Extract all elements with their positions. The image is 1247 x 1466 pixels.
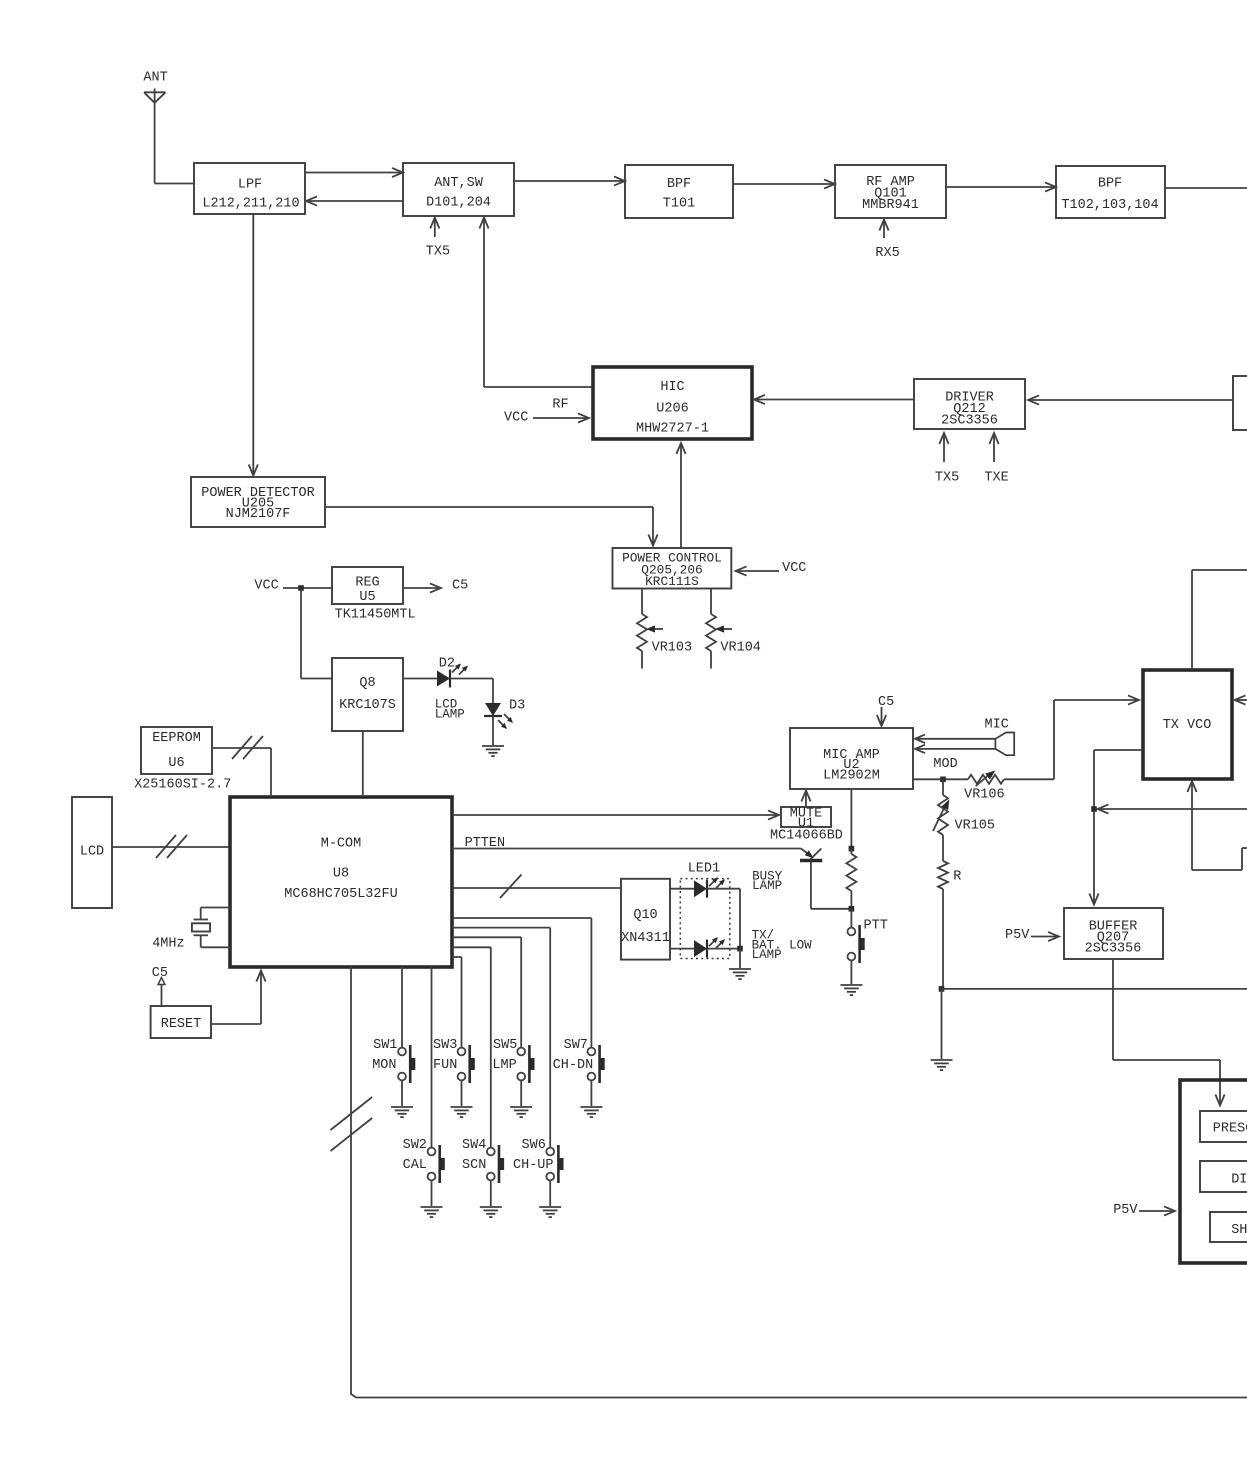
svg-text:RX5: RX5 bbox=[875, 246, 899, 261]
potentiometer VR103 bbox=[637, 589, 692, 669]
block POWER DETECTOR U205 NJM2107F bbox=[191, 477, 325, 527]
net VCC to REG bbox=[254, 579, 332, 594]
wire M-COM to MUTE bbox=[452, 810, 779, 819]
wire VR106 to TX VCO bbox=[1004, 695, 1139, 779]
svg-text:VR104: VR104 bbox=[720, 641, 761, 656]
svg-text:VR103: VR103 bbox=[652, 641, 693, 656]
svg-text:T101: T101 bbox=[663, 197, 695, 212]
svg-text:LM2902M: LM2902M bbox=[823, 769, 880, 784]
bus M-COM long line to bottom bbox=[351, 967, 1247, 1398]
wire MIC AMP to PTT node bbox=[850, 789, 852, 849]
block BPF T101 bbox=[625, 165, 733, 218]
svg-text:MIC: MIC bbox=[985, 718, 1009, 733]
svg-text:FUN: FUN bbox=[433, 1058, 457, 1073]
wire HIC to ANT,SW bbox=[479, 218, 593, 388]
block TX VCO (bold) bbox=[1143, 670, 1232, 779]
label D3 bbox=[509, 699, 525, 714]
svg-text:M-COM: M-COM bbox=[321, 837, 362, 852]
svg-text:SHI: SHI bbox=[1231, 1223, 1247, 1238]
wire DRIVER to HIC bbox=[754, 395, 914, 404]
svg-text:SW1: SW1 bbox=[373, 1038, 397, 1053]
svg-text:C5: C5 bbox=[152, 966, 168, 981]
svg-text:LAMP: LAMP bbox=[752, 948, 782, 962]
svg-text:TXE: TXE bbox=[984, 471, 1008, 486]
wire RF AMP to BPF T102 bbox=[946, 182, 1056, 191]
block POWER CONTROL Q205,206 KRC111S bbox=[613, 548, 732, 589]
svg-text:SW6: SW6 bbox=[522, 1138, 546, 1153]
block Q8 KRC107S bbox=[332, 658, 403, 731]
wire BPF to RF AMP bbox=[733, 179, 835, 188]
transistor Q9 (PTT switch) bbox=[800, 849, 851, 909]
wire node to ground bbox=[941, 989, 943, 1059]
net P5V arrow into BUFFER bbox=[1005, 928, 1059, 943]
svg-text:T102,103,104: T102,103,104 bbox=[1061, 198, 1158, 213]
wire Q10 to tx led bbox=[670, 948, 694, 950]
svg-text:D2: D2 bbox=[439, 657, 455, 672]
potentiometer VR104 bbox=[706, 589, 761, 669]
led D2 bbox=[437, 664, 468, 688]
led D3 bbox=[484, 703, 513, 729]
wire VR105 to R bbox=[942, 835, 944, 861]
svg-text:MMBR941: MMBR941 bbox=[862, 198, 919, 213]
wire M-COM to SW4 bbox=[452, 947, 491, 1147]
svg-text:SW2: SW2 bbox=[403, 1138, 427, 1153]
svg-text:VCC: VCC bbox=[254, 579, 278, 594]
svg-text:CH-DN: CH-DN bbox=[553, 1058, 594, 1073]
svg-text:VCC: VCC bbox=[782, 561, 806, 576]
svg-text:LAMP: LAMP bbox=[752, 879, 782, 893]
svg-text:KRC107S: KRC107S bbox=[339, 698, 396, 713]
svg-text:U206: U206 bbox=[656, 402, 688, 417]
block MIC AMP U2 LM2902M bbox=[790, 728, 913, 789]
label D2 bbox=[439, 657, 455, 672]
svg-text:CAL: CAL bbox=[403, 1158, 427, 1173]
svg-text:L212,211,210: L212,211,210 bbox=[202, 197, 299, 212]
svg-text:ANT: ANT bbox=[143, 71, 167, 86]
bus EEPROM to M-COM bbox=[212, 748, 271, 795]
block RF AMP Q101 MMBR941 bbox=[835, 165, 946, 218]
svg-text:EEPROM: EEPROM bbox=[152, 731, 201, 746]
block PLL (bold, clipped) bbox=[1180, 1080, 1247, 1263]
ground under PTT bbox=[840, 985, 862, 995]
label TX/ BAT. LOW LAMP bbox=[752, 929, 813, 963]
wire RESET to M-COM bbox=[211, 971, 266, 1025]
block LCD bbox=[72, 797, 112, 908]
switch SW6 CH-UP bbox=[513, 1138, 564, 1217]
svg-text:X25160SI-2.7: X25160SI-2.7 bbox=[134, 778, 231, 793]
block REG U5 bbox=[332, 567, 403, 605]
block MUTE U1 bbox=[781, 807, 831, 832]
node ANT label bbox=[143, 71, 167, 86]
switch SW5 LMP bbox=[492, 1038, 534, 1117]
net TX5 arrow into DRIVER bbox=[935, 433, 959, 486]
svg-text:MC14066BD: MC14066BD bbox=[770, 829, 843, 844]
value label X25160SI-2.7 bbox=[134, 778, 231, 793]
svg-text:XN4311: XN4311 bbox=[621, 931, 670, 946]
svg-text:BPF: BPF bbox=[667, 177, 691, 192]
wire M-COM to SW3 bbox=[452, 957, 462, 1048]
svg-text:4MHz: 4MHz bbox=[152, 937, 184, 952]
svg-text:VR106: VR106 bbox=[964, 788, 1005, 803]
wire BUFFER to prescaler bbox=[1113, 959, 1225, 1106]
svg-text:VR105: VR105 bbox=[955, 819, 996, 834]
block M-COM U8 MC68HC705L32FU (bold) bbox=[230, 797, 452, 967]
junction MOD node bbox=[940, 777, 946, 783]
led LED1a (busy) bbox=[694, 877, 725, 898]
wire M-COM to SW7 bbox=[452, 918, 591, 1048]
junction ground-line node bbox=[939, 986, 945, 992]
junction PTT node upper bbox=[849, 846, 855, 852]
net RF label bbox=[552, 398, 568, 413]
net TX5 arrow into ANT,SW bbox=[426, 218, 450, 260]
block PRESCALER (clipped) bbox=[1200, 1111, 1247, 1142]
resistor R bbox=[938, 861, 961, 889]
svg-text:TX VCO: TX VCO bbox=[1163, 718, 1212, 733]
svg-text:U8: U8 bbox=[333, 867, 349, 882]
svg-text:SW3: SW3 bbox=[433, 1038, 457, 1053]
net RX5 arrow into RF AMP bbox=[875, 220, 899, 262]
svg-text:P5V: P5V bbox=[1005, 928, 1030, 943]
switch SW1 MON bbox=[372, 1038, 415, 1117]
svg-text:CH-UP: CH-UP bbox=[513, 1158, 554, 1173]
wire PTT to ground bbox=[850, 960, 852, 984]
antenna ANT symbol bbox=[144, 89, 166, 184]
svg-text:2SC3356: 2SC3356 bbox=[941, 414, 998, 429]
net MOD label bbox=[933, 757, 957, 772]
wire POWER CONTROL to HIC bbox=[676, 443, 685, 547]
wire right block to DRIVER bbox=[1028, 395, 1233, 404]
wire LPF to ANT,SW (TX path) bbox=[305, 168, 403, 177]
junction VCC node bbox=[298, 585, 304, 591]
svg-text:TX5: TX5 bbox=[426, 245, 450, 260]
switch SW7 CH-DN bbox=[553, 1038, 605, 1117]
bus LCD to M-COM bbox=[112, 846, 230, 848]
net VCC arrow into HIC bbox=[504, 411, 589, 426]
block DIVIDER (clipped) bbox=[1200, 1161, 1247, 1192]
microphone MIC symbol bbox=[995, 733, 1014, 756]
block DRIVER Q212 2SC3356 bbox=[914, 379, 1025, 429]
svg-text:SW5: SW5 bbox=[493, 1038, 517, 1053]
wire tx led to node bbox=[707, 948, 740, 950]
value label MC14066BD bbox=[770, 829, 843, 844]
svg-text:LMP: LMP bbox=[492, 1058, 516, 1073]
block BUFFER Q207 2SC3356 bbox=[1064, 908, 1163, 959]
wire TX VCO bottom feedback bbox=[1187, 781, 1247, 870]
block EEPROM U6 bbox=[141, 727, 212, 774]
svg-text:BPF: BPF bbox=[1098, 177, 1122, 192]
wire busy led to corner bbox=[707, 889, 740, 949]
ground under D3 bbox=[482, 746, 504, 756]
label MIC bbox=[985, 718, 1009, 733]
wire Q8 to LED D2 bbox=[403, 678, 437, 680]
net VCC arrow into POWER CONTROL bbox=[736, 561, 807, 576]
potentiometer VR105 bbox=[933, 779, 995, 835]
block BPF T102,103,104 bbox=[1056, 166, 1165, 218]
svg-text:SCN: SCN bbox=[462, 1158, 486, 1173]
svg-text:C5: C5 bbox=[878, 695, 894, 710]
svg-text:PTT: PTT bbox=[864, 919, 888, 934]
resistor R (PTT pull) bbox=[846, 849, 856, 909]
switch SW4 SCN bbox=[462, 1138, 504, 1217]
svg-text:MON: MON bbox=[372, 1058, 396, 1073]
potentiometer VR106 bbox=[964, 770, 1005, 802]
wire M-COM to SW5 bbox=[452, 937, 521, 1047]
svg-text:PRESC: PRESC bbox=[1213, 1122, 1247, 1137]
net C5 arrow into MIC AMP bbox=[877, 695, 894, 726]
wire ANT,SW to BPF T101 bbox=[514, 176, 625, 185]
wire TX VCO top to page edge bbox=[1192, 570, 1247, 670]
bus slash marks on EEPROM bus bbox=[232, 736, 263, 759]
svg-text:LCD: LCD bbox=[80, 845, 104, 860]
svg-text:LPF: LPF bbox=[238, 178, 262, 193]
block SHIFT (clipped) bbox=[1210, 1212, 1247, 1242]
switch SW3 FUN bbox=[433, 1038, 475, 1117]
svg-text:Q10: Q10 bbox=[633, 908, 657, 923]
svg-text:2SC3356: 2SC3356 bbox=[1085, 942, 1142, 957]
block LPF bbox=[194, 163, 305, 214]
net PTTEN label bbox=[465, 836, 506, 851]
wire M-COM to SW6 bbox=[452, 928, 550, 1148]
wire page edge into TX VCO right bbox=[1235, 695, 1247, 704]
bus slash on Q10 wire bbox=[500, 875, 522, 899]
svg-text:D101,204: D101,204 bbox=[426, 196, 491, 211]
wire POWER DETECTOR to POWER CONTROL bbox=[325, 507, 658, 546]
wire D2 to D3 bbox=[450, 679, 493, 704]
svg-text:DIV: DIV bbox=[1231, 1173, 1247, 1188]
net TXE arrow into DRIVER bbox=[984, 433, 1008, 486]
ground under R bbox=[931, 1060, 953, 1070]
label LED1 bbox=[688, 862, 720, 877]
svg-text:MOD: MOD bbox=[933, 757, 957, 772]
value label TK11450MTL bbox=[335, 608, 416, 623]
wire ANT,SW to LPF (RX return) bbox=[306, 196, 403, 205]
svg-text:VCC: VCC bbox=[504, 411, 528, 426]
net C5 into RESET bbox=[152, 966, 168, 1006]
svg-text:SW7: SW7 bbox=[564, 1038, 588, 1053]
label LCD LAMP bbox=[435, 698, 465, 722]
svg-text:SW4: SW4 bbox=[462, 1138, 486, 1153]
svg-text:D3: D3 bbox=[509, 699, 525, 714]
svg-text:REG: REG bbox=[355, 576, 379, 591]
block RESET bbox=[151, 1006, 211, 1038]
svg-text:MC68HC705L32FU: MC68HC705L32FU bbox=[284, 887, 397, 902]
svg-text:KRC111S: KRC111S bbox=[645, 574, 699, 589]
svg-text:ANT,SW: ANT,SW bbox=[434, 176, 484, 191]
bus slash marks on long bus bbox=[331, 1097, 373, 1151]
svg-text:U5: U5 bbox=[359, 590, 375, 605]
wire MUTE to MIC AMP bbox=[801, 791, 810, 807]
wire M-COM to Q10 bbox=[452, 887, 621, 889]
net C5 arrow from REG bbox=[403, 579, 468, 594]
svg-text:P5V: P5V bbox=[1113, 1203, 1138, 1218]
switch SW2 CAL bbox=[403, 1138, 445, 1217]
junction led node bbox=[737, 946, 743, 952]
junction buffer node bbox=[1091, 806, 1097, 812]
svg-text:MHW2727-1: MHW2727-1 bbox=[636, 422, 709, 437]
label BUSY LAMP bbox=[752, 870, 783, 894]
net P5V arrow into PLL bbox=[1113, 1203, 1175, 1218]
wire LPF to POWER DETECTOR bbox=[249, 214, 258, 476]
svg-text:TX5: TX5 bbox=[935, 471, 959, 486]
wire M-COM to SW2 bbox=[431, 967, 433, 1148]
crystal X1 4MHz bbox=[192, 908, 230, 948]
switch PTT bbox=[848, 919, 888, 964]
block ANT,SW D101,204 bbox=[403, 163, 514, 216]
value label 4MHz bbox=[152, 937, 184, 952]
block HIC U206 MHW2727-1 (bold) bbox=[593, 367, 752, 439]
wire Q8 to M-COM bbox=[362, 731, 364, 795]
wire node to PTT switch bbox=[850, 909, 852, 928]
bus slash marks on LCD bus bbox=[156, 835, 187, 858]
svg-text:Q8: Q8 bbox=[359, 676, 375, 691]
wire PTTEN from M-COM bbox=[452, 848, 801, 850]
svg-text:RESET: RESET bbox=[161, 1017, 202, 1032]
wire Q10 to busy led bbox=[670, 888, 694, 890]
wire TX VCO left to buffer node bbox=[1089, 750, 1143, 905]
wire D3 to ground bbox=[492, 716, 494, 745]
svg-text:RF: RF bbox=[552, 398, 568, 413]
wire ANT to LPF bbox=[155, 183, 194, 185]
svg-text:TK11450MTL: TK11450MTL bbox=[335, 608, 416, 623]
block partial at right edge bbox=[1233, 376, 1247, 430]
svg-text:U6: U6 bbox=[168, 756, 184, 771]
ground under LED1 bbox=[729, 969, 751, 979]
junction PTT node lower bbox=[849, 906, 855, 912]
wire MIC AMP to VR106 bbox=[913, 778, 968, 780]
svg-text:C5: C5 bbox=[452, 579, 468, 594]
wire VCC node to Q8 bbox=[301, 588, 332, 679]
wire M-COM to SW1 bbox=[401, 967, 403, 1048]
wire page edge to buffer node bbox=[1098, 804, 1247, 813]
svg-text:HIC: HIC bbox=[660, 380, 684, 395]
block Q10 XN4311 bbox=[621, 879, 670, 960]
svg-text:R: R bbox=[953, 870, 961, 885]
svg-text:LAMP: LAMP bbox=[435, 708, 465, 722]
svg-text:LED1: LED1 bbox=[688, 862, 720, 877]
wire BPF T102 output to page edge bbox=[1165, 187, 1247, 189]
wire R to ground node bbox=[942, 889, 944, 989]
svg-text:NJM2107F: NJM2107F bbox=[226, 507, 291, 522]
led LED1b (tx/bat low) bbox=[694, 937, 725, 958]
wire led node to ground bbox=[739, 949, 741, 968]
bus MIC to MIC AMP bbox=[915, 735, 995, 754]
led frame LED1 (dotted) bbox=[680, 879, 730, 959]
wire node to page edge bbox=[942, 988, 1247, 990]
